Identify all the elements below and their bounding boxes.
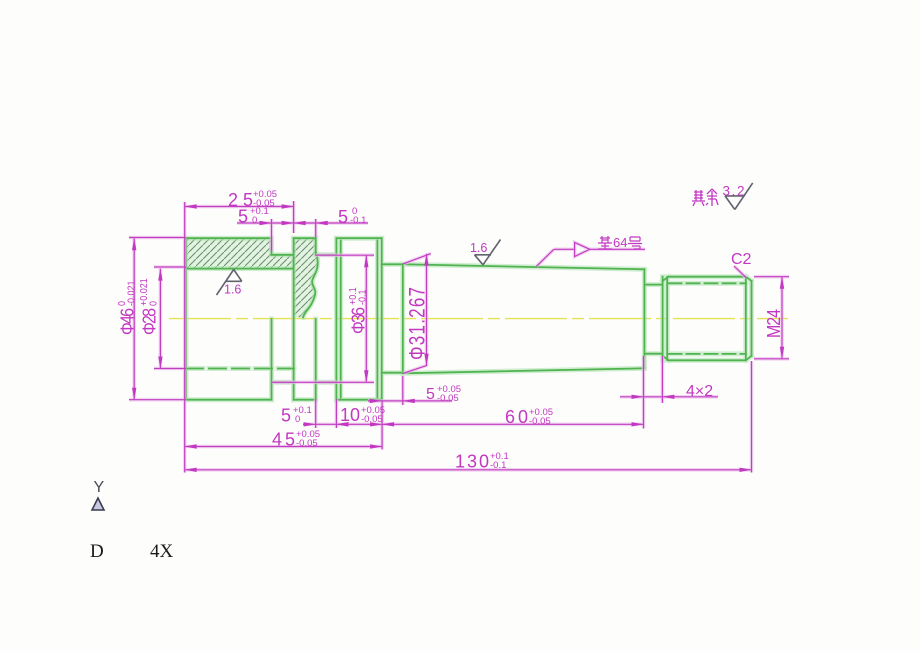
svg-text:-0.05: -0.05 <box>437 393 459 404</box>
Phi28 arrows <box>158 269 162 281</box>
general roughness note top-right <box>725 183 753 210</box>
svg-text:4X: 4X <box>150 541 174 562</box>
svg-text:-0.05: -0.05 <box>361 414 383 425</box>
hatched section left block <box>186 238 294 268</box>
flag note CJK strokes <box>598 236 642 249</box>
svg-text:0: 0 <box>148 300 160 306</box>
svg-text:Y: Y <box>94 479 105 496</box>
svg-text:Φ31.267: Φ31.267 <box>405 287 430 360</box>
svg-text:-0.05: -0.05 <box>296 438 318 449</box>
svg-text:5: 5 <box>238 207 248 227</box>
svg-text:Φ46: Φ46 <box>116 308 137 335</box>
svg-text:M24: M24 <box>763 309 784 338</box>
dimension texts <box>116 189 784 472</box>
centerline <box>169 318 788 320</box>
svg-text:C2: C2 <box>731 251 752 268</box>
5b arrows <box>370 399 382 403</box>
svg-text:3.2: 3.2 <box>723 184 745 199</box>
text Phi36 <box>347 287 369 334</box>
4x2 arrows <box>632 395 644 399</box>
M24 arrows <box>780 277 784 289</box>
UCS icon triangle <box>92 498 104 510</box>
svg-text:5: 5 <box>426 386 435 403</box>
svg-text:5: 5 <box>338 207 348 227</box>
svg-text:Φ36: Φ36 <box>347 307 368 334</box>
svg-text:-0.021: -0.021 <box>126 281 138 306</box>
svg-text:-0.1: -0.1 <box>350 215 366 226</box>
text qiyu (CJK strokes) <box>692 189 718 206</box>
5a arrows <box>260 221 272 225</box>
hatched flange broken-out section <box>294 238 318 317</box>
Phi46 arrows <box>132 238 136 250</box>
svg-text:-0.1: -0.1 <box>357 289 369 305</box>
svg-text:0: 0 <box>252 215 257 226</box>
svg-text:-0.1: -0.1 <box>490 460 506 471</box>
Phi36 arrows <box>364 255 368 267</box>
25 arrows <box>185 204 197 208</box>
text Phi46 <box>116 281 138 335</box>
10 arrows <box>336 422 348 426</box>
roughness symbol 1.6 on taper <box>475 240 501 265</box>
svg-text:10: 10 <box>340 405 360 425</box>
arrowheads (magenta) <box>132 204 784 472</box>
130 arrows <box>185 468 197 472</box>
svg-text:4×2: 4×2 <box>686 383 713 400</box>
text M24 <box>763 309 784 338</box>
svg-text:D: D <box>90 541 104 562</box>
svg-text:130: 130 <box>455 452 489 472</box>
60 arrows <box>382 422 394 426</box>
text Phi28 <box>138 278 160 335</box>
svg-text:5: 5 <box>281 406 291 426</box>
svg-text:Φ28: Φ28 <box>138 308 159 335</box>
text Phi31.267 <box>405 287 430 360</box>
svg-text:1.6: 1.6 <box>470 241 487 255</box>
svg-text:1.6: 1.6 <box>224 283 241 297</box>
roughness symbol 1.6 on bore <box>217 270 242 296</box>
svg-text:0: 0 <box>295 414 300 425</box>
svg-text:-0.05: -0.05 <box>529 416 551 427</box>
45 arrows <box>185 444 197 448</box>
svg-text:64: 64 <box>613 235 627 250</box>
5c arrows <box>304 422 316 426</box>
Phi31.267 arrows <box>424 254 428 266</box>
